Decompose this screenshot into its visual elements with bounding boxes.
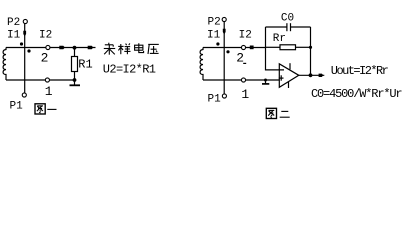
- svg-text:1: 1: [241, 87, 249, 102]
- wire Rr right: [296, 46, 311, 48]
- wire secondary top fig1: [6, 47, 96, 49]
- svg-text:I2: I2: [39, 30, 52, 42]
- label 图一: [35, 104, 57, 114]
- wire feedback right vertical: [310, 27, 312, 75]
- svg-text:C0=4500/W*Rr*Ur: C0=4500/W*Rr*Ur: [311, 87, 402, 101]
- wire feedback left vertical: [266, 27, 285, 70]
- svg-text:P2: P2: [208, 17, 221, 29]
- winding secondary L2: [200, 48, 203, 81]
- svg-text:I1: I1: [207, 30, 221, 42]
- svg-text:I2: I2: [239, 30, 252, 42]
- svg-text:R1: R1: [78, 58, 92, 72]
- wire capacitor rail right: [291, 26, 311, 28]
- minus mark under 2: [243, 62, 246, 64]
- arrow I2 on wire fig2: [250, 46, 254, 50]
- ground on + input: [264, 79, 267, 82]
- resistor Rr: [280, 45, 296, 50]
- op-amp plus sign: [279, 77, 284, 79]
- wire secondary top fig2: [203, 47, 266, 49]
- op-amp U1: [279, 64, 299, 88]
- polarity dot secondary fig1: [27, 49, 30, 52]
- wire secondary bottom fig1: [6, 79, 75, 81]
- label 采样电压 (sampling voltage): [104, 43, 159, 55]
- svg-text:P2: P2: [7, 17, 20, 29]
- glyph 压: [148, 44, 159, 54]
- terminal 1 fig2: [241, 78, 245, 82]
- capacitor C0 plates: [286, 23, 288, 31]
- glyph 采: [104, 43, 115, 55]
- label 图二: [266, 108, 289, 118]
- junction R1 top: [73, 46, 77, 50]
- op-amp supply pin bottom: [288, 82, 290, 88]
- junction output node: [309, 73, 313, 77]
- junction R1 bottom: [73, 78, 77, 82]
- ground fig1: [70, 84, 81, 86]
- wire capacitor rail left: [266, 26, 287, 28]
- terminal 1 fig1: [45, 78, 49, 82]
- winding secondary L1: [3, 48, 6, 81]
- svg-text:2: 2: [236, 50, 244, 65]
- wire primary conductor fig1: [24, 24, 26, 93]
- arrow I1 direction fig2: [223, 29, 226, 35]
- arrow to sampling text: [88, 46, 94, 50]
- svg-text:P1: P1: [10, 101, 24, 113]
- terminal 2 fig1: [46, 45, 50, 49]
- terminal P1 fig2: [222, 94, 226, 98]
- junction Rr right: [309, 46, 312, 49]
- wire Rr left: [266, 46, 281, 48]
- polarity dot primary fig1: [20, 42, 23, 45]
- glyph 图: [266, 108, 276, 118]
- terminal P1 fig1: [22, 93, 26, 97]
- svg-text:2: 2: [41, 50, 49, 65]
- arrow I1 direction fig1: [23, 31, 26, 37]
- glyph 电: [135, 43, 144, 52]
- wire output: [299, 74, 325, 76]
- svg-text:C0: C0: [281, 12, 294, 24]
- terminal 2 fig2: [241, 45, 245, 49]
- wire secondary bottom fig2: [203, 79, 279, 81]
- svg-text:I1: I1: [7, 30, 21, 42]
- op-amp supply pin top: [289, 63, 291, 69]
- wire R1 stems: [74, 48, 76, 57]
- polarity dot primary fig2: [216, 42, 219, 45]
- arrow output: [319, 74, 324, 77]
- arrow I2 on wire fig1: [59, 46, 65, 50]
- polarity dot secondary fig2: [226, 50, 229, 53]
- svg-text:P1: P1: [208, 93, 222, 105]
- resistor R1: [72, 57, 78, 72]
- terminal P2: [23, 19, 27, 23]
- wire primary conductor fig2: [223, 22, 225, 94]
- svg-text:Uout=I2*Rr: Uout=I2*Rr: [331, 64, 389, 78]
- svg-text:1: 1: [45, 84, 53, 99]
- glyph 样: [118, 43, 130, 54]
- glyph 二: [280, 111, 290, 117]
- glyph 一: [47, 108, 56, 110]
- svg-text:U2=I2*R1: U2=I2*R1: [103, 62, 156, 76]
- svg-text:Rr: Rr: [273, 33, 286, 45]
- glyph 图: [35, 104, 45, 114]
- terminal P2 fig2: [222, 17, 226, 21]
